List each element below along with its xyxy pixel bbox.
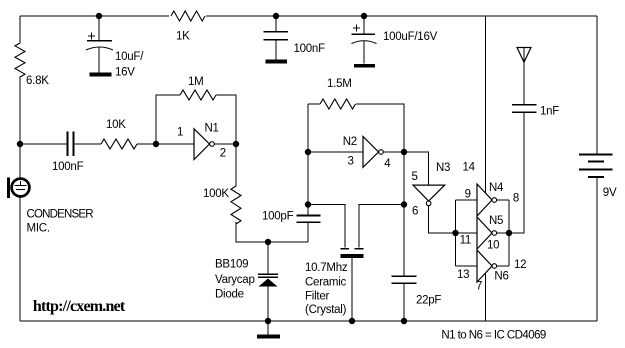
svg-text:16V: 16V — [115, 67, 135, 79]
svg-text:9: 9 — [465, 189, 471, 201]
wire left vertical upper — [19, 16, 21, 43]
wire pin12 stub — [497, 265, 509, 267]
wire N2 input — [308, 151, 363, 153]
svg-text:1M: 1M — [188, 76, 203, 88]
node N2 output junction — [401, 149, 407, 155]
wire coupling cap to 10K — [74, 143, 102, 145]
svg-text:22pF: 22pF — [416, 295, 441, 307]
wire N1 output — [215, 143, 237, 145]
node input bracket junction — [452, 230, 458, 236]
wire filter left link — [308, 205, 345, 248]
wire top rail right segment — [206, 15, 597, 17]
svg-text:6: 6 — [412, 206, 418, 218]
wire input bracket — [455, 200, 457, 266]
svg-text:14: 14 — [463, 162, 476, 174]
wire 1.5M loop right — [356, 104, 404, 152]
svg-text:3: 3 — [348, 156, 354, 168]
wire pin14 supply — [485, 16, 487, 193]
op-amp inverter N3 (pointing down) — [413, 185, 445, 206]
wire 100K down and across — [236, 222, 308, 242]
diode D BB109 varicap — [258, 242, 278, 321]
svg-text:Filter: Filter — [305, 291, 329, 303]
wire pin7 ground — [485, 273, 487, 321]
svg-text:Ceramic: Ceramic — [305, 277, 347, 289]
op-amp inverter N2 — [363, 136, 383, 167]
node 22pF ground junction — [401, 318, 407, 324]
svg-text:9V: 9V — [603, 187, 617, 199]
wire left vertical lower — [19, 198, 21, 322]
svg-text:100nF: 100nF — [52, 161, 84, 173]
svg-text:http://cxem.net: http://cxem.net — [33, 298, 126, 315]
op-amp inverter N5 — [477, 217, 497, 249]
capacitor C 100nF (supply decoupling) — [264, 16, 289, 62]
svg-text:N5: N5 — [489, 215, 503, 227]
svg-text:BB109: BB109 — [215, 259, 248, 271]
capacitor C 100uF/16V electrolytic — [352, 16, 377, 66]
node left junction — [17, 141, 23, 147]
wire top rail left segment — [20, 15, 169, 17]
op-amp inverter N4 — [477, 184, 497, 216]
svg-text:10uF/: 10uF/ — [115, 51, 144, 63]
svg-text:6.8K: 6.8K — [26, 75, 49, 87]
svg-text:10K: 10K — [106, 119, 126, 131]
microphone condenser mic — [9, 178, 30, 199]
wire pin11 stub — [456, 232, 478, 234]
svg-text:7: 7 — [476, 281, 482, 293]
wire 1M loop right side — [216, 95, 236, 144]
wire 1.5M loop top — [308, 103, 320, 105]
svg-text:Diode: Diode — [215, 289, 244, 301]
svg-text:N6: N6 — [494, 271, 508, 283]
wire N2 output — [383, 151, 404, 153]
node top-rail junction at 100nF — [273, 13, 279, 19]
node output bracket junction — [506, 230, 512, 236]
svg-text:1.5M: 1.5M — [327, 78, 352, 90]
op-amp inverter N1 — [194, 129, 214, 160]
svg-text:10.7Mhz: 10.7Mhz — [305, 262, 348, 274]
resistor R 1M — [180, 90, 216, 100]
battery 9V — [579, 16, 613, 321]
node 100pF top junction — [305, 201, 311, 207]
svg-text:100K: 100K — [203, 188, 229, 200]
wire pin8 stub — [497, 199, 509, 201]
svg-text:CONDENSER: CONDENSER — [27, 209, 94, 221]
antenna — [517, 48, 531, 105]
wire pin9 stub — [456, 199, 478, 201]
svg-text:N4: N4 — [489, 182, 504, 194]
svg-text:12: 12 — [514, 259, 526, 271]
wire 10K to N1 input node — [137, 143, 156, 145]
svg-text:N1: N1 — [205, 123, 219, 135]
node 22pF top junction — [401, 201, 407, 207]
svg-text:2: 2 — [220, 148, 226, 160]
svg-text:5: 5 — [412, 171, 418, 183]
svg-text:N1 to N6 = IC CD4069: N1 to N6 = IC CD4069 — [441, 330, 546, 342]
wire N2 output vertical — [403, 152, 405, 276]
wire N1 output down — [235, 144, 237, 186]
resistor R 100K — [231, 186, 241, 224]
wire bottom rail — [20, 320, 597, 322]
svg-text:100pF: 100pF — [262, 211, 294, 223]
capacitor C 100pF — [297, 205, 321, 243]
svg-text:Varycap: Varycap — [215, 274, 255, 286]
svg-text:1nF: 1nF — [540, 106, 559, 118]
node varicap ground junction — [265, 318, 271, 324]
wire pin13 stub — [456, 265, 478, 267]
svg-text:100uF/16V: 100uF/16V — [383, 31, 438, 43]
capacitor C 10uF/16V electrolytic — [86, 16, 113, 75]
svg-text:(Crystal): (Crystal) — [305, 304, 347, 316]
wire N3 output — [429, 206, 456, 233]
resistor R 1.5M — [320, 99, 356, 109]
svg-text:MIC.: MIC. — [27, 223, 50, 235]
wire N1 input — [156, 143, 194, 145]
svg-text:1K: 1K — [176, 31, 190, 43]
svg-text:100nF: 100nF — [294, 43, 326, 55]
wire left vertical middle — [19, 77, 21, 178]
resistor R 1K (series in top rail) — [171, 11, 205, 21]
node top-rail junction at 10uF — [96, 13, 102, 19]
capacitor C 100nF coupling — [68, 132, 74, 157]
wire N2 output to N3 — [404, 152, 429, 185]
resistor R 6.8K — [15, 43, 25, 77]
svg-text:8: 8 — [513, 193, 519, 205]
wire 1.5M loop left vertical — [307, 104, 309, 205]
ground under varicap — [257, 321, 280, 337]
svg-text:N2: N2 — [343, 136, 357, 148]
svg-text:N3: N3 — [436, 162, 450, 174]
svg-text:13: 13 — [457, 269, 469, 281]
node N1 input junction — [153, 141, 159, 147]
node filter ground junction — [349, 318, 355, 324]
node varicap junction — [265, 239, 271, 245]
wire output bracket — [508, 200, 510, 266]
resistor R 10K — [101, 139, 137, 149]
wire filter right link — [359, 205, 404, 248]
svg-text:4: 4 — [384, 158, 391, 170]
node top-rail junction at 100uF — [361, 13, 367, 19]
node N1 output junction — [233, 141, 239, 147]
wire 1M feedback loop — [156, 95, 180, 144]
svg-text:1: 1 — [177, 127, 183, 139]
capacitor C 1nF — [509, 105, 536, 233]
wire pin10 stub — [497, 232, 509, 234]
node N2 input junction — [305, 149, 311, 155]
wire mic row to coupling cap — [20, 143, 68, 145]
svg-text:11: 11 — [460, 234, 471, 246]
capacitor C 22pF — [392, 276, 417, 321]
svg-text:10: 10 — [487, 240, 499, 252]
op-amp inverter N6 — [477, 250, 497, 282]
crystal ceramic filter 10.7MHz — [341, 249, 364, 321]
